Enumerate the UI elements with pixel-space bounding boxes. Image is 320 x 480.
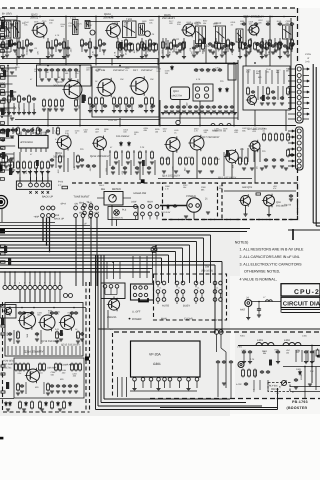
dark electrolytic [82, 95, 85, 104]
capacitor [266, 370, 270, 374]
ground [21, 55, 25, 57]
dark electrolytic capacitor [2, 152, 5, 159]
resistor [26, 39, 29, 48]
wire rail row3 top [0, 125, 296, 127]
wire component lead [39, 72, 41, 78]
junction [245, 16, 247, 18]
dark electrolytic capacitor [10, 90, 13, 97]
wire bus to connector pin [24, 272, 26, 285]
ground [227, 113, 231, 115]
wire component lead [69, 72, 71, 78]
ground [206, 111, 210, 113]
resistor [10, 39, 13, 48]
wire drop [216, 334, 218, 352]
ground [220, 55, 224, 57]
lead TX bottom [35, 346, 37, 355]
resistor [89, 41, 92, 50]
wire component lead [51, 40, 53, 54]
wire power thick [160, 205, 187, 207]
connector P2 pin 14 [69, 294, 73, 298]
ground [76, 166, 80, 168]
connector J2 pin 9 [297, 112, 301, 116]
ground [161, 57, 165, 59]
resistor [202, 42, 205, 51]
matrix contact 1a row2 [156, 290, 160, 294]
connector J2 pin 6 [297, 96, 301, 100]
module pin 3 [149, 378, 153, 382]
lead TX bottom [15, 346, 17, 355]
board outline h3 [101, 402, 246, 404]
wire interconnect [1, 208, 3, 222]
capacitor [317, 354, 320, 358]
resistor [43, 99, 46, 108]
ground [188, 111, 192, 113]
wire component lead [63, 72, 65, 78]
lead TX bottom [67, 346, 69, 355]
wire component lead [57, 72, 59, 78]
capacitor [44, 68, 48, 72]
matrix contact 2b row2 [181, 290, 185, 294]
junction bus [4, 271, 6, 273]
wire booster right vertical [311, 346, 313, 384]
wire to J3 pin [288, 142, 296, 144]
wire component lead [73, 152, 75, 168]
resistor left edge [1, 261, 6, 263]
junction [214, 331, 216, 333]
ground [4, 166, 8, 168]
wire component lead [95, 40, 97, 54]
ground [46, 172, 50, 174]
wire interconnect [233, 63, 235, 126]
resistor [18, 95, 21, 104]
resistor [2, 41, 5, 50]
junction [271, 16, 273, 18]
ground [257, 315, 261, 317]
wire drop to lamp box [106, 262, 108, 279]
capacitor [176, 105, 180, 109]
resistor [59, 155, 62, 164]
ground [28, 172, 32, 174]
resistor [63, 401, 66, 410]
wire VP left drop [117, 377, 119, 397]
ground [84, 50, 88, 52]
ground [40, 409, 44, 411]
lead [12, 127, 14, 134]
matrix contact 4b row1 [219, 281, 223, 285]
ground [247, 52, 251, 54]
module pin lead [158, 381, 160, 388]
wire booster out 2 [290, 391, 320, 393]
resistor [17, 161, 20, 170]
capacitor left edge [1, 138, 5, 142]
ground [192, 55, 196, 57]
varactor D103 [90, 30, 95, 35]
lead [267, 380, 269, 390]
ground [152, 50, 156, 52]
jack J301 [238, 362, 244, 368]
lead [301, 350, 303, 362]
switch contact [89, 206, 93, 210]
wire rail row3 bottom [158, 178, 252, 180]
ground [215, 113, 219, 115]
capacitor [56, 68, 60, 72]
diode D15b [128, 141, 131, 146]
wire bus to connector pin [29, 272, 31, 285]
ground [223, 52, 227, 54]
ground [138, 162, 142, 164]
coil L105 [236, 29, 243, 42]
wire interconnect [47, 108, 49, 126]
diode D15a [120, 141, 123, 146]
dark electrolytic capacitor [1, 108, 4, 115]
ground [182, 111, 186, 113]
module pin lead [188, 381, 190, 388]
switch matrix dashed box [154, 274, 227, 320]
junction [158, 16, 160, 18]
wire left stub [0, 43, 16, 45]
title underline 2 [282, 312, 320, 314]
dark electrolytic capacitor [1, 22, 4, 29]
ground [276, 362, 280, 364]
wire B+ rail row1 [2, 16, 296, 18]
wire bus drop 6 [189, 245, 191, 283]
wire interconnect [269, 17, 271, 67]
wire bus line 10 [0, 257, 162, 259]
ground [135, 172, 139, 174]
capacitor [2, 97, 6, 101]
ground [176, 111, 180, 113]
junction [291, 44, 292, 45]
wire to S1 [42, 177, 44, 183]
VP-20A hybrid module [131, 341, 201, 377]
diode D301 [299, 370, 302, 375]
wire interconnect [214, 265, 216, 321]
capacitor [103, 104, 107, 108]
junction [96, 268, 98, 270]
resistor [151, 97, 154, 106]
dashed border main unit right upper [297, 8, 299, 63]
capacitor [188, 105, 192, 109]
wire bottom rail left [2, 58, 66, 60]
lead [40, 330, 42, 344]
wire left stub [0, 83, 12, 85]
diode D102 [219, 87, 222, 92]
resistor [247, 87, 250, 96]
ground [7, 113, 11, 115]
resistor [179, 157, 182, 166]
wire TX box top rail [7, 307, 86, 309]
wire interconnect [268, 206, 270, 215]
switch HIGH/LOW contact [141, 205, 145, 209]
wire regulator up [113, 297, 115, 299]
contact stem down [214, 301, 216, 304]
wire bus drop 4 [203, 238, 205, 283]
module pin lead [196, 381, 198, 388]
capacitor [248, 350, 252, 354]
wire component lead [81, 46, 83, 52]
connector J3 pin 5 [297, 153, 301, 157]
lead [258, 312, 260, 315]
resistor [125, 43, 128, 52]
contact stem [220, 293, 222, 297]
wire component lead [193, 40, 195, 54]
wire component lead [99, 46, 101, 52]
junction [10, 44, 11, 45]
wire left stub [0, 107, 16, 109]
capacitor [120, 46, 124, 50]
junction [42, 239, 44, 241]
junction bus [24, 271, 26, 273]
matrix contact 2a row2 [175, 290, 179, 294]
ground [280, 103, 284, 105]
wire switch drop thick [42, 218, 44, 241]
module pin 4 [157, 378, 161, 382]
title underline 1 [282, 309, 320, 311]
connector J3 pin 4 [297, 147, 301, 151]
resistor left edge [1, 325, 5, 327]
arrowhead [292, 148, 295, 150]
ground [197, 113, 201, 115]
ground [283, 52, 287, 54]
resistor left edge extra [0, 26, 4, 29]
ground [166, 55, 170, 57]
diode [25, 401, 28, 406]
resistor [141, 41, 144, 50]
arrowhead [292, 165, 295, 167]
ground [111, 172, 115, 174]
lead [282, 86, 284, 100]
lead [295, 350, 297, 362]
ground [54, 79, 58, 81]
resistor left edge extra [0, 18, 4, 21]
capacitor [12, 97, 16, 101]
capacitor [266, 22, 270, 26]
connector P2 pin 13 [64, 294, 68, 298]
capacitor [170, 105, 174, 109]
connector J2 pin 5 [297, 90, 301, 94]
junction [47, 65, 49, 67]
wire antenna feed [252, 301, 281, 303]
coil L301 [256, 343, 274, 346]
ground [48, 109, 52, 111]
wire switch drop [75, 218, 77, 287]
resistor [227, 39, 230, 48]
wire booster out 1 [290, 386, 320, 388]
wire rail row2 top [0, 63, 238, 65]
relay RLY-301 [268, 383, 290, 392]
wire left stub [0, 27, 13, 29]
junction [46, 244, 48, 246]
switch contact [41, 214, 45, 218]
lead [43, 382, 45, 394]
ground [46, 393, 50, 395]
ground [120, 55, 124, 57]
matrix contact 3b row1 [200, 281, 204, 285]
switch contact [81, 206, 85, 210]
wire from board to J2 [288, 86, 296, 88]
wire interconnect [221, 262, 223, 321]
switch contact extra [83, 211, 87, 215]
capacitor [278, 22, 282, 26]
matrix contact 4b row3 [219, 298, 223, 302]
wire left stub [0, 153, 14, 155]
resistor [55, 363, 58, 372]
diode [57, 401, 60, 406]
wire to J2 pin [304, 91, 310, 93]
matrix contact 3b row2 [200, 290, 204, 294]
ground [74, 109, 78, 111]
ground [58, 166, 62, 168]
dashed booster top [114, 331, 320, 333]
wire from board to J2 [288, 97, 296, 99]
capacitor [70, 311, 74, 315]
capacitor [18, 311, 22, 315]
feed-through terminal 2 [219, 330, 223, 334]
junction [145, 151, 146, 152]
resistor [5, 155, 8, 164]
contact stem down [157, 301, 159, 304]
diode D201 [167, 204, 170, 209]
lead TX bottom [39, 346, 41, 355]
resistor left edge extra [0, 90, 4, 93]
wire rail row2 right bottom [160, 117, 238, 119]
ground [116, 57, 120, 59]
contact stem down [195, 301, 197, 304]
connector J3 pin 2 [297, 135, 301, 139]
scan mark left edge 2 [0, 228, 5, 234]
wire interconnect [111, 58, 113, 66]
ground [175, 52, 179, 54]
matrix contact 2b row3 [181, 298, 185, 302]
ground [289, 199, 293, 201]
capacitor [111, 166, 115, 170]
lead [307, 350, 309, 362]
dashed TX border v1 [85, 282, 87, 412]
resistor [95, 97, 98, 106]
switch S1 wiper cross [35, 191, 37, 193]
mic amp box [14, 358, 84, 398]
lead [238, 38, 240, 52]
ground [222, 383, 226, 385]
junction [95, 16, 97, 18]
wire left stub [0, 19, 17, 21]
capacitor [102, 42, 106, 46]
lead [106, 160, 108, 175]
transistor Q211 [18, 311, 36, 329]
switch S1 contact 1 [18, 183, 22, 187]
transistor Q104 [105, 23, 120, 39]
capacitor [8, 332, 12, 336]
capacitor [264, 46, 268, 50]
switch contact [51, 214, 55, 218]
resistor [81, 39, 84, 48]
ground [1, 57, 5, 59]
matrix contact row3 [194, 298, 198, 302]
wire hop-over [211, 124, 215, 126]
ground [40, 79, 44, 81]
wire interconnect [7, 66, 9, 126]
wire from board to J2 [288, 91, 296, 93]
wire component lead [149, 46, 151, 52]
connector J3 strip [296, 127, 304, 170]
wire bus to connector pin [54, 272, 56, 285]
wire component lead [3, 103, 5, 112]
resistor [185, 157, 188, 166]
wire to S1 [36, 177, 38, 183]
capacitor [127, 104, 131, 108]
ground [230, 111, 234, 113]
wire to S1 [47, 177, 49, 183]
dark component blob [262, 95, 265, 101]
capacitor [271, 44, 275, 48]
wire component lead [167, 40, 169, 54]
ground [10, 44, 14, 46]
capacitor [80, 332, 84, 336]
capacitor [242, 350, 246, 354]
wire component lead [125, 46, 127, 52]
ground [294, 387, 298, 389]
ground [80, 165, 84, 167]
junction [258, 301, 260, 303]
transistor Q212 [92, 136, 106, 151]
capacitor [218, 105, 222, 109]
capacitor [68, 68, 72, 72]
matrix contact 3a row1 [194, 281, 198, 285]
contact stem [201, 293, 203, 297]
speaker/phone jack J5 [0, 196, 8, 209]
wire component lead [253, 70, 255, 84]
ground [264, 55, 268, 57]
ground [118, 111, 122, 113]
ground [59, 339, 63, 341]
wire component lead [121, 150, 123, 166]
resistor [37, 127, 40, 136]
coil L8 [266, 300, 273, 302]
connector J2 pin 3 [297, 79, 301, 83]
transistor Q13 [164, 136, 180, 152]
resistor [29, 161, 32, 170]
module pin lead [169, 381, 171, 388]
ground [208, 50, 212, 52]
capacitor [151, 104, 155, 108]
ground [272, 103, 276, 105]
dashed TX border bottom [3, 411, 90, 413]
capacitor [56, 384, 60, 388]
capacitor [274, 42, 278, 46]
lead TX bottom [11, 346, 13, 355]
diode [5, 401, 8, 406]
wire bus to connector pin [9, 272, 11, 285]
resistor left edge [1, 109, 6, 111]
lead [130, 160, 132, 175]
resistor [119, 97, 122, 106]
wire interconnect [36, 168, 38, 181]
wire to J3 pin [288, 160, 296, 162]
capacitor [6, 128, 10, 132]
resistor [131, 43, 134, 52]
resistor [209, 157, 212, 166]
capacitor [242, 22, 246, 26]
wire component lead [245, 40, 247, 54]
wire to J3 pin [288, 154, 296, 156]
ground [42, 109, 46, 111]
wire bus to connector pin [59, 272, 61, 285]
lead TX bottom [59, 346, 61, 355]
switch contact extra [83, 204, 87, 208]
wire interconnect [116, 220, 118, 227]
ground [8, 165, 12, 167]
ground [162, 171, 166, 173]
